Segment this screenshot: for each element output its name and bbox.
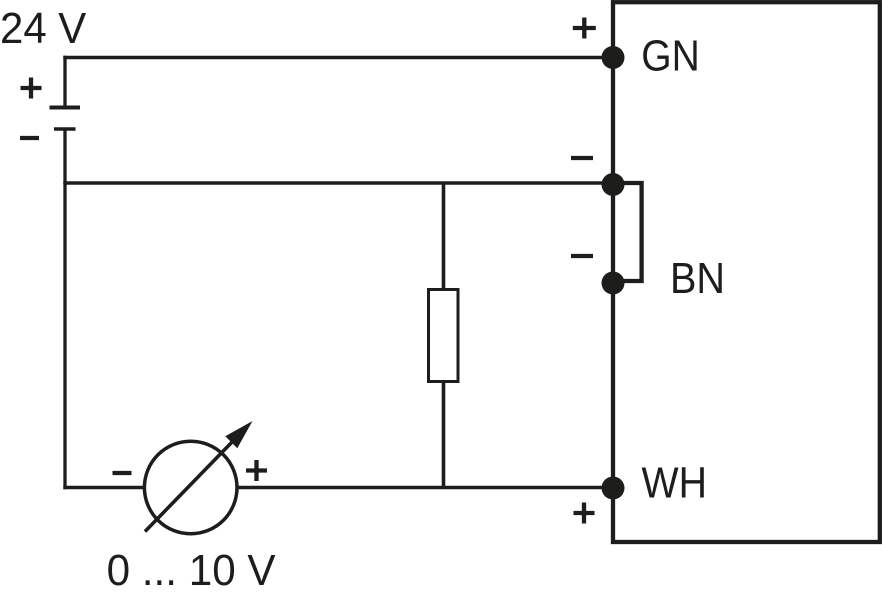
battery B1 minus plate <box>54 127 76 131</box>
battery minus sign <box>20 136 39 140</box>
wire resistor branch lower <box>442 381 446 488</box>
battery plus sign <box>21 78 42 99</box>
svg-text:0 ... 10 V: 0 ... 10 V <box>107 547 276 595</box>
voltmeter minus sign <box>113 471 132 475</box>
svg-text:WH: WH <box>642 460 708 508</box>
plus sign at GN <box>573 18 596 39</box>
wire left rail lower <box>63 129 66 489</box>
node dot GN terminal <box>602 46 625 69</box>
voltmeter plus sign <box>246 460 267 481</box>
node dot BN terminal <box>602 272 625 295</box>
minus sign at node <box>571 156 593 160</box>
wire left rail upper <box>63 56 66 108</box>
wire top supply to GN <box>63 56 613 60</box>
device box sensor outline <box>613 2 880 542</box>
voltmeter P1 circle <box>144 441 237 534</box>
wire resistor branch upper <box>442 183 446 290</box>
node dot WH terminal <box>602 477 625 500</box>
minus sign at BN <box>571 254 593 258</box>
wire bottom left to voltmeter <box>63 486 143 490</box>
plus sign at WH <box>574 503 595 524</box>
wire middle horizontal to node <box>63 181 613 185</box>
resistor R load <box>429 290 459 382</box>
svg-text:BN: BN <box>670 255 725 303</box>
svg-text:GN: GN <box>641 33 700 81</box>
internal load bracket at BN <box>613 183 642 281</box>
battery B1 plus plate <box>50 106 81 110</box>
wire voltmeter to WH <box>239 486 614 490</box>
voltmeter needle shaft <box>145 440 234 532</box>
node dot junction at middle wire <box>602 173 625 196</box>
voltmeter needle arrowhead <box>225 421 252 448</box>
svg-text:24 V: 24 V <box>0 5 86 53</box>
